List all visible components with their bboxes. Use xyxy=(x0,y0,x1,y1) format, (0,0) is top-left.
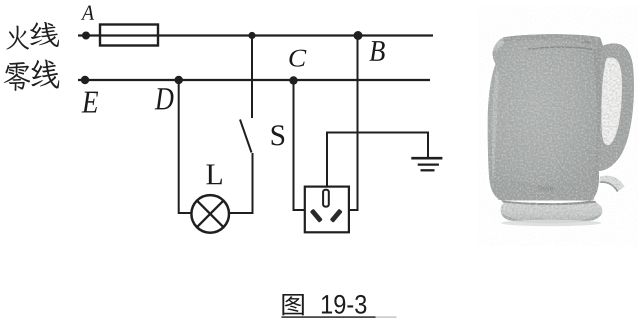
node B (junction dot) xyxy=(354,31,363,40)
node A (junction dot) xyxy=(82,32,90,40)
ground symbol xyxy=(411,158,442,170)
node A label xyxy=(81,5,94,19)
kettle body left highlight xyxy=(492,70,499,185)
label 火线 (live wire text) xyxy=(6,22,59,49)
wire: B down to socket right xyxy=(349,36,358,211)
wire: C down to socket left xyxy=(294,81,305,211)
socket left pin slot xyxy=(310,209,323,223)
kettle floor shadow xyxy=(501,220,601,226)
wire: live wire horizontal xyxy=(78,34,433,36)
lamp L label xyxy=(206,164,222,184)
node D (junction dot) xyxy=(175,76,183,84)
kettle base skirt xyxy=(501,203,603,222)
switch S blade (open) xyxy=(240,120,252,153)
lamp L (circle with X) xyxy=(191,195,229,233)
kettle handle hole xyxy=(601,57,622,145)
kettle photo xyxy=(478,6,638,246)
node C label xyxy=(289,50,306,67)
kettle lid button xyxy=(583,41,592,45)
kettle spout shade xyxy=(493,38,505,53)
node D label xyxy=(155,88,174,109)
node B label xyxy=(369,41,384,61)
wire: socket earth pin to ground xyxy=(327,133,428,187)
scan artifact bar at bottom xyxy=(282,316,376,318)
kettle handle xyxy=(596,43,634,171)
socket earth pin slot (top) xyxy=(323,190,329,207)
wire: D down to lamp left side xyxy=(179,80,192,213)
node E label xyxy=(82,92,99,113)
node E (junction dot on neutral) xyxy=(81,76,89,84)
kettle cord xyxy=(600,176,625,191)
kettle body bottom shade xyxy=(495,178,596,200)
node C (junction dot) xyxy=(289,76,297,84)
kettle base bottom edge xyxy=(501,211,603,223)
kettle body xyxy=(488,34,604,200)
junction dot at switch branch on live wire xyxy=(248,32,255,39)
caption 图 19-3 xyxy=(282,294,366,315)
label 零线 (neutral wire text) xyxy=(4,60,59,91)
photo background grain xyxy=(478,6,638,246)
kettle lid top xyxy=(500,34,601,42)
fuse (on live wire) xyxy=(100,25,158,46)
kettle lid seam xyxy=(528,46,592,50)
socket (3-pin outlet) body xyxy=(305,187,349,233)
socket right pin slot xyxy=(330,209,343,223)
wire: switch to lamp right side xyxy=(229,153,253,213)
kettle body right shade xyxy=(592,48,601,194)
switch S label xyxy=(272,125,285,145)
wire: neutral wire horizontal xyxy=(78,79,430,81)
kettle base transition xyxy=(502,201,597,206)
wire: switch branch from live wire down xyxy=(251,36,253,119)
